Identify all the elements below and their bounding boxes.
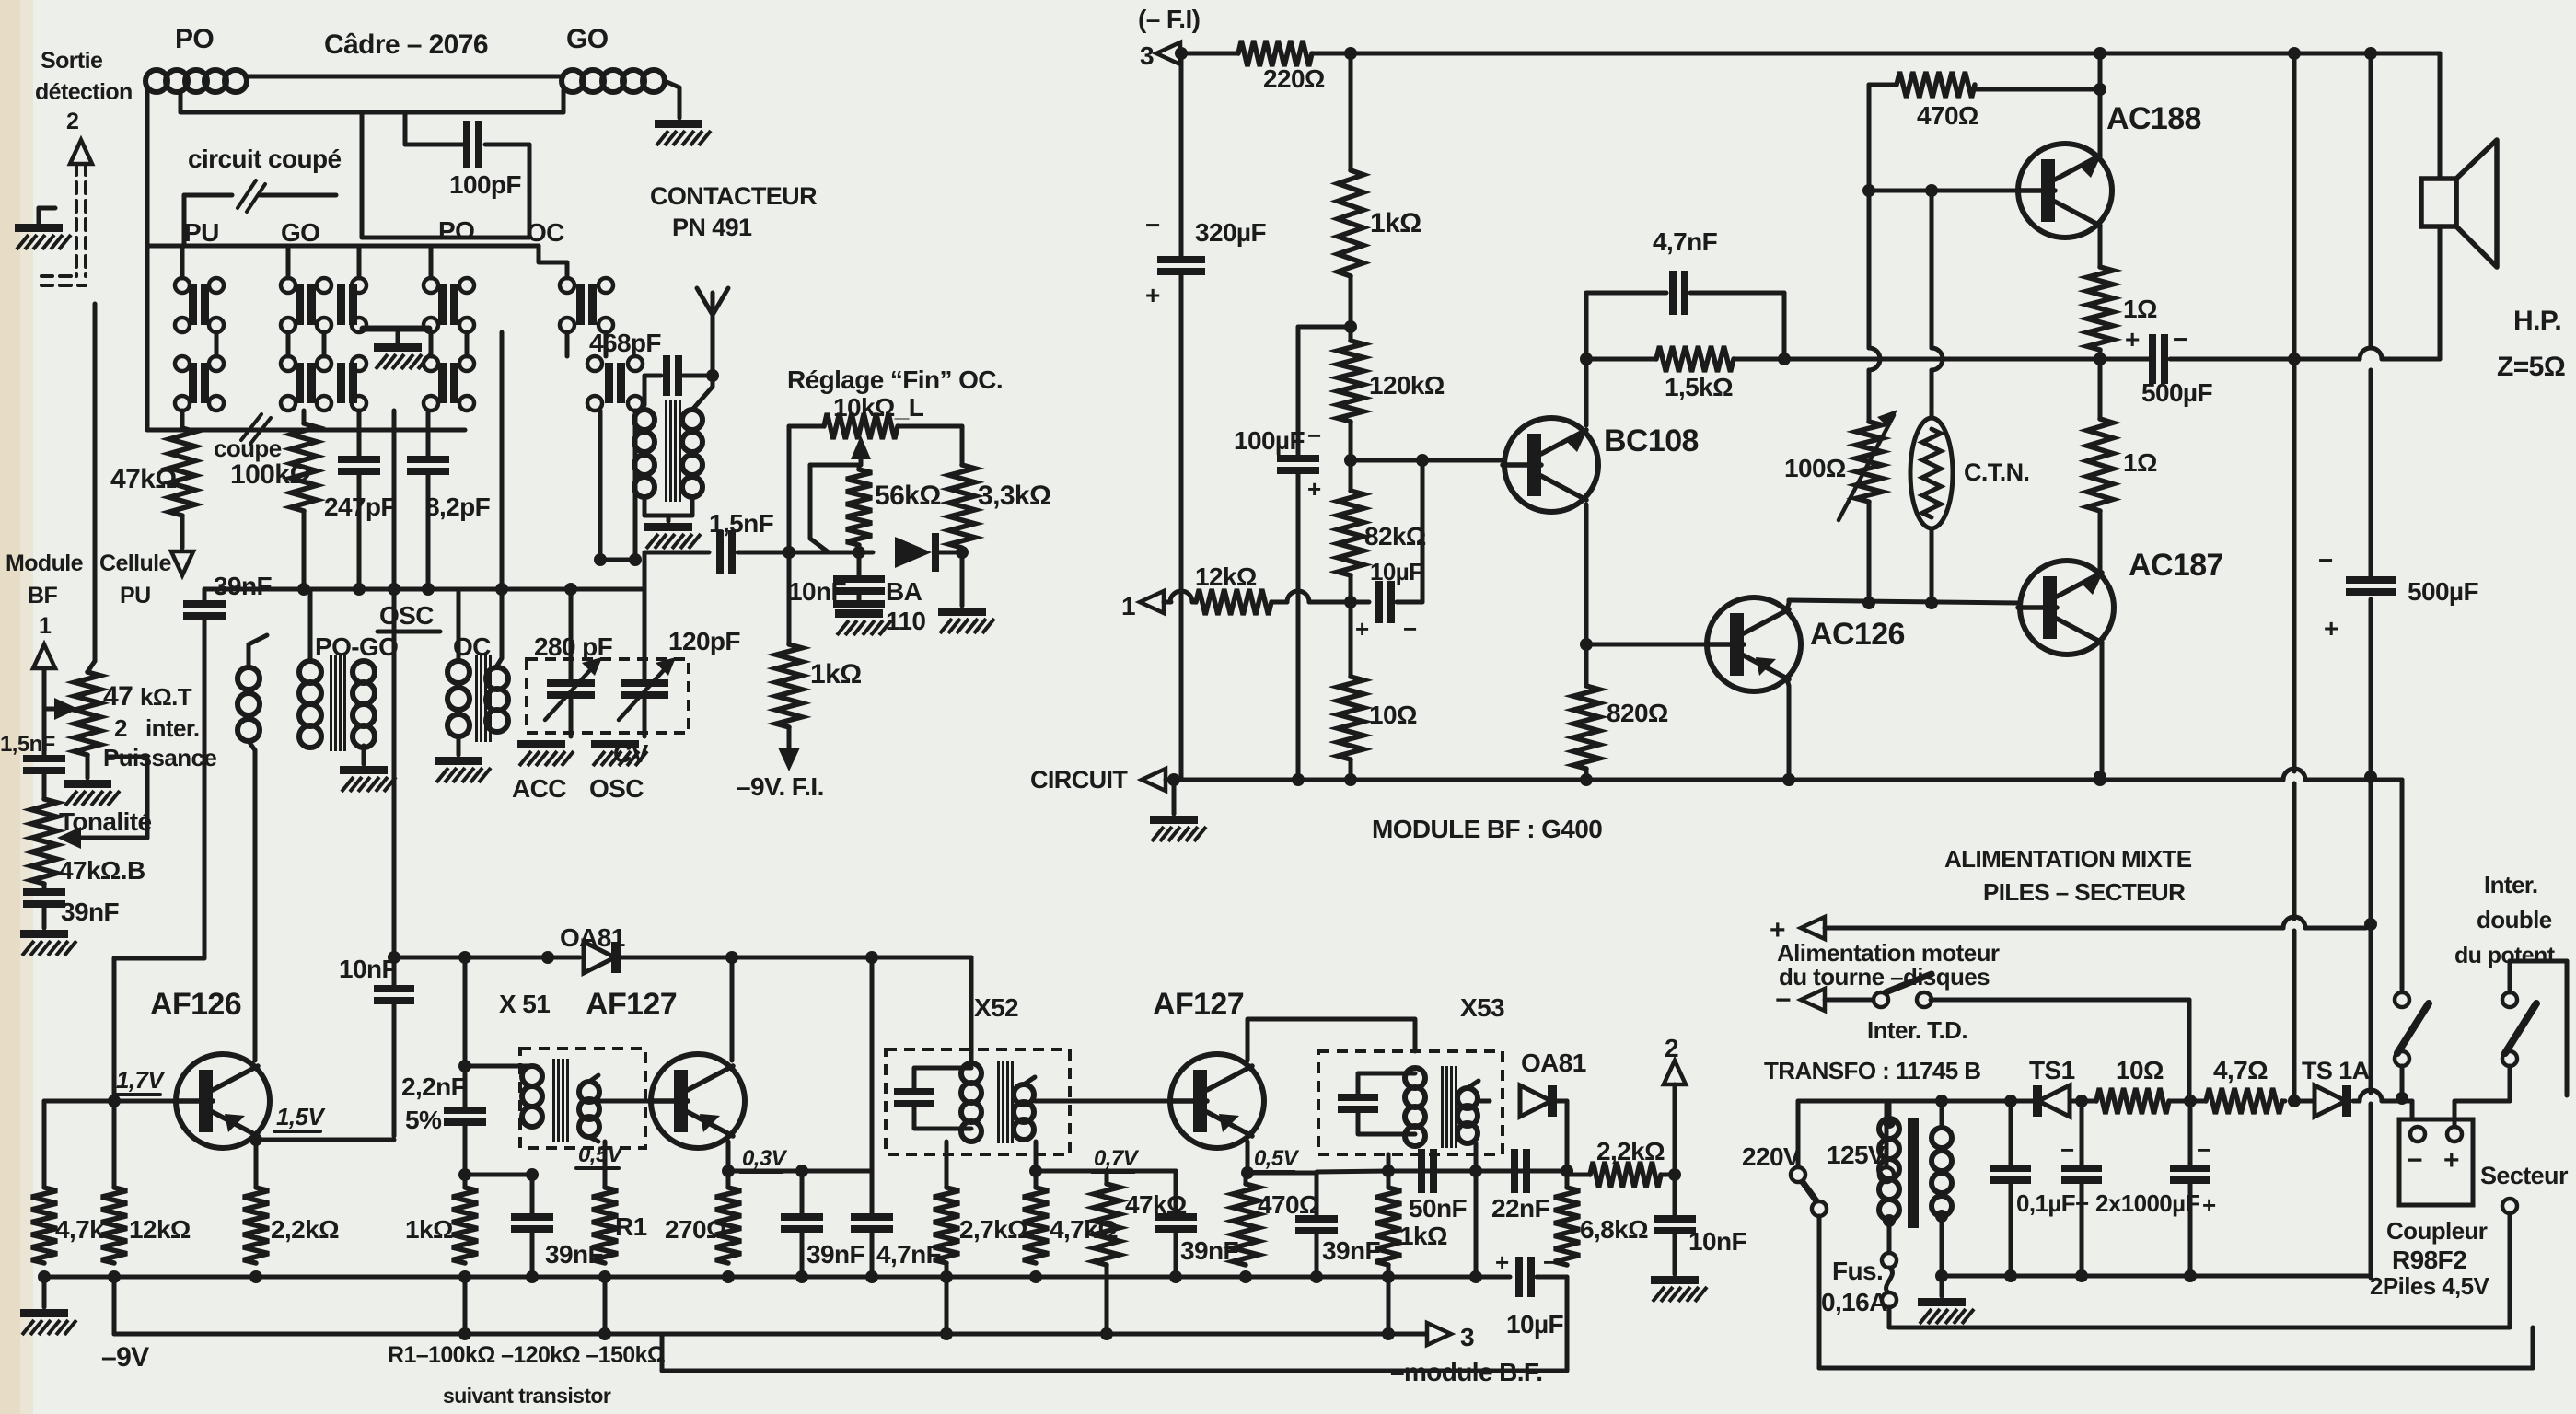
wire hp vertical: [2438, 53, 2443, 179]
transistor AC187 Q6: [2020, 561, 2114, 655]
wire ps ground rail: [1942, 1274, 2371, 1279]
svg-text:100Ω: 100Ω: [1784, 454, 1846, 482]
wire risers OC switch: [598, 411, 603, 560]
wire af126 emitter: [258, 1138, 394, 1142]
svg-text:−: −: [2173, 325, 2187, 353]
svg-text:820Ω: 820Ω: [1607, 699, 1668, 727]
wire af127-1 emitter: [726, 1142, 731, 1171]
wire 470 to emitter: [1973, 85, 1978, 89]
capacitor 10uF out: [1515, 1257, 1523, 1297]
capacitor 10nF out: [1673, 1175, 1677, 1215]
wire long vertical x2492: [2292, 53, 2297, 771]
wires contact risers: [180, 246, 185, 278]
wire circuit coupe with break: [184, 193, 232, 198]
capacitor 4,7nF bf: [1586, 291, 1666, 296]
ground GO: [655, 120, 702, 128]
dashed box X52: [886, 1049, 1070, 1154]
svg-text:47kΩ: 47kΩ: [110, 464, 177, 494]
coil L-PO cadre: [145, 70, 168, 92]
ground 10nF out: [1651, 1276, 1699, 1284]
wire det to diode: [789, 551, 873, 555]
capacitor 39nF stage1: [800, 1171, 805, 1213]
capacitor 39nF x51: [511, 1213, 553, 1221]
svg-text:280 pF: 280 pF: [534, 632, 613, 661]
diode BA110: [895, 537, 932, 568]
wire 2,2nF bottom: [458, 1168, 471, 1181]
wire diode to 3,3k: [939, 551, 962, 555]
svg-text:10µF: 10µF: [1370, 558, 1422, 585]
svg-text:MODULE BF : G400: MODULE BF : G400: [1372, 815, 1602, 843]
thermistor CTN: [1910, 418, 1953, 528]
svg-text:320µF: 320µF: [1195, 218, 1266, 247]
resistor 2,7kOhm: [934, 1188, 959, 1263]
wire x53 cap down: [1474, 1171, 1479, 1277]
ground sortie detection: [15, 224, 63, 232]
wire oa81 top: [394, 956, 580, 960]
svg-text:22nF: 22nF: [1491, 1194, 1549, 1223]
svg-text:R1–100kΩ –120kΩ –150kΩ: R1–100kΩ –120kΩ –150kΩ: [388, 1342, 666, 1368]
ground OSC cv: [591, 740, 639, 748]
wire cellule PU riser: [93, 304, 98, 661]
svg-text:5%: 5%: [405, 1106, 442, 1134]
svg-text:4,7Ω: 4,7Ω: [2213, 1056, 2268, 1084]
wire long vertical x2575: [2369, 53, 2373, 348]
svg-text:0,16A: 0,16A: [1821, 1288, 1887, 1316]
wire x52 top riser: [969, 957, 974, 1063]
wire af126 base: [44, 1099, 176, 1104]
wire secondary out: [1942, 1099, 2035, 1104]
wire af126 base riser: [203, 635, 207, 958]
svg-text:CIRCUIT: CIRCUIT: [1030, 766, 1128, 794]
wire af126 collector riser: [253, 750, 258, 1060]
svg-text:1,5kΩ: 1,5kΩ: [1665, 373, 1733, 401]
dashed box X51: [520, 1049, 645, 1148]
transistor AC188 Q7: [2018, 144, 2112, 238]
svg-text:1Ω: 1Ω: [2123, 448, 2157, 477]
capacitor 39nF (detection): [203, 589, 207, 600]
svg-text:Secteur: Secteur: [2480, 1162, 2569, 1189]
wire 0,7V bus: [1036, 1169, 1107, 1174]
wire - line down: [2187, 1000, 2192, 1098]
svg-text:470Ω: 470Ω: [1258, 1190, 1319, 1219]
svg-text:R1: R1: [615, 1212, 647, 1241]
resistor 220 Ohm: [1238, 41, 1312, 66]
svg-text:468pF: 468pF: [589, 329, 661, 357]
svg-text:AF126: AF126: [150, 987, 241, 1022]
pot wiper puissance: [44, 707, 55, 712]
wire 1k-120k: [1349, 276, 1353, 341]
svg-text:10nF: 10nF: [1688, 1227, 1746, 1256]
resistor 820 Ohm: [1584, 644, 1589, 686]
ground puissance: [86, 755, 90, 778]
svg-text:470Ω: 470Ω: [1917, 101, 1978, 130]
svg-text:BA: BA: [886, 577, 922, 606]
capacitor X52 tune: [894, 1088, 934, 1095]
wire battery plus: [2453, 1101, 2457, 1127]
svg-text:2,2nF: 2,2nF: [401, 1072, 467, 1101]
svg-text:270Ω: 270Ω: [665, 1215, 726, 1244]
svg-text:6,8kΩ: 6,8kΩ: [1580, 1215, 1648, 1244]
wire riser PO switch: [500, 332, 505, 589]
wire rail C: [662, 1277, 1567, 1371]
svg-text:BC108: BC108: [1604, 423, 1699, 458]
svg-text:0,3V: 0,3V: [742, 1146, 788, 1171]
capacitor X53 tune: [1338, 1094, 1378, 1101]
transformer OC antenna: [643, 376, 647, 405]
wire base node: [1349, 422, 1353, 460]
wire ac126 base: [1586, 643, 1706, 647]
wire out bus: [1317, 1171, 1388, 1172]
wire 4,7nF right: [1782, 293, 1787, 359]
diode TS1: [2038, 1085, 2070, 1117]
resistor 470 Ohm: [1244, 1173, 1248, 1184]
contactor section B closed bars: [189, 363, 197, 403]
capacitor 39nF stage3: [1246, 1171, 1317, 1176]
svg-text:PO: PO: [175, 24, 214, 54]
resistor 120kOhm: [1338, 341, 1363, 422]
wire 100uF branch: [1298, 325, 1351, 330]
wire PO left down to switch: [145, 90, 150, 285]
svg-text:120pF: 120pF: [668, 627, 740, 655]
svg-text:−: −: [1145, 211, 1160, 239]
wire oa81-2 out: [1556, 1099, 1567, 1104]
svg-text:–9V: –9V: [101, 1342, 149, 1373]
resistor R1: [603, 1142, 608, 1188]
wire ac187 collector: [2100, 643, 2105, 777]
svg-text:−: −: [2197, 1136, 2210, 1164]
svg-text:+: +: [2324, 614, 2338, 643]
svg-text:47kΩ.B: 47kΩ.B: [59, 856, 145, 885]
svg-text:47: 47: [103, 681, 133, 712]
switch 220V selector: [1791, 1167, 1805, 1182]
resistor 4,7kOhm stage2: [1034, 1142, 1039, 1188]
svg-text:X52: X52: [974, 993, 1018, 1022]
svg-text:2x1000µF: 2x1000µF: [2095, 1189, 2199, 1217]
wire top rail: [1312, 52, 2440, 56]
svg-text:120kΩ: 120kΩ: [1369, 371, 1445, 400]
resistor 47kOhm stage2: [1105, 1171, 1109, 1184]
svg-text:ALIMENTATION MIXTE: ALIMENTATION MIXTE: [1944, 845, 2192, 873]
svg-text:500µF: 500µF: [2141, 378, 2212, 407]
ground BA110 right: [938, 608, 986, 616]
svg-text:+: +: [2125, 325, 2140, 353]
wire x51 sec to af127: [598, 1099, 650, 1104]
capacitor 247pF: [338, 456, 380, 463]
svg-text:1kΩ: 1kΩ: [405, 1215, 453, 1244]
svg-text:8,2pF: 8,2pF: [425, 493, 491, 521]
contactor section B contacts: [175, 356, 190, 371]
svg-text:4,7nF: 4,7nF: [1653, 227, 1718, 256]
svg-text:Câdre – 2076: Câdre – 2076: [324, 29, 488, 60]
wire 39nF down: [203, 620, 207, 635]
ground tonalite: [20, 930, 68, 938]
svg-text:C.T.N.: C.T.N.: [1964, 458, 2029, 486]
resistor 3,3kOhm: [949, 465, 975, 548]
svg-text:OSC: OSC: [379, 601, 434, 630]
ground transformer OC: [667, 516, 671, 521]
svg-text:Module: Module: [6, 551, 84, 576]
svg-text:Fus.: Fus.: [1832, 1257, 1883, 1285]
wire dashed sortie detection: [75, 164, 78, 276]
svg-text:1,5V: 1,5V: [276, 1103, 326, 1130]
svg-text:50nF: 50nF: [1409, 1194, 1467, 1223]
svg-text:−: −: [1775, 985, 1791, 1015]
wire ac126 emitter: [1787, 679, 1789, 686]
svg-text:double: double: [2477, 906, 2552, 933]
wire power top: [1798, 1099, 1942, 1104]
wire x53 down: [1387, 1154, 1391, 1171]
wire main det y600: [644, 551, 709, 555]
ground ACC: [517, 740, 565, 748]
resistor 1kOhm bf: [1349, 53, 1353, 170]
wire bus y267: [147, 244, 539, 249]
ground circuit rail: [1172, 780, 1177, 814]
svg-text:TS 1A: TS 1A: [2302, 1057, 2370, 1084]
wire collector row dots: [1862, 597, 1875, 609]
wire 0,3V bus: [728, 1169, 872, 1174]
svg-text:10Ω: 10Ω: [1369, 701, 1417, 729]
wire fuse bottom rail: [1889, 1326, 2510, 1330]
wire oa81 to af127: [619, 956, 732, 960]
svg-text:H.P.: H.P.: [2513, 306, 2561, 336]
svg-text:PU: PU: [184, 218, 219, 247]
svg-text:OSC: OSC: [589, 774, 644, 803]
wire x51 down 39nF: [530, 1175, 535, 1213]
potentiometer 47kOhm.T puissance: [75, 672, 100, 755]
diode TS1A: [2294, 1099, 2316, 1104]
connector module BF arrow: [33, 644, 55, 668]
wire risers to RC row: [180, 411, 185, 428]
svg-text:220Ω: 220Ω: [1263, 64, 1325, 93]
wire osc coil riser: [249, 741, 255, 750]
transistor AF127 Q2: [651, 1054, 745, 1148]
resistor 1,5kOhm: [1656, 346, 1734, 372]
svg-text:125V: 125V: [1827, 1141, 1886, 1169]
wire PO-GO top: [247, 75, 563, 79]
resistor 2,2kOhm af126: [254, 1140, 259, 1188]
wire ac188 base: [1867, 85, 1872, 348]
resistor 82kOhm: [1349, 460, 1353, 491]
svg-text:4,7nF: 4,7nF: [876, 1240, 942, 1269]
svg-text:+: +: [1307, 475, 1321, 503]
variable capacitor 280pF CV: [569, 589, 574, 679]
svg-text:PO: PO: [438, 216, 474, 245]
svg-text:39nF: 39nF: [61, 898, 119, 926]
svg-text:+: +: [1145, 281, 1160, 309]
svg-text:OA81: OA81: [1521, 1049, 1586, 1077]
ground 10nF det: [835, 609, 883, 618]
svg-text:inter.: inter.: [145, 714, 200, 742]
svg-text:détection: détection: [35, 79, 133, 105]
svg-text:10µF: 10µF: [1506, 1310, 1563, 1339]
wire reglage right: [960, 426, 965, 465]
svg-text:100kΩ: 100kΩ: [230, 459, 311, 490]
resistor 12kOhm bf: [1196, 589, 1271, 615]
svg-text:3: 3: [1460, 1323, 1474, 1351]
contactor section A closed bars: [189, 284, 197, 325]
svg-text:100pF: 100pF: [449, 170, 521, 199]
svg-text:TS1: TS1: [2029, 1056, 2075, 1084]
svg-text:kΩ.T: kΩ.T: [140, 683, 192, 711]
coil osc feedback: [238, 667, 260, 690]
pot wiper tonalite: [57, 827, 81, 849]
svg-text:−: −: [2318, 546, 2333, 574]
transformer osc PO-GO: [308, 589, 313, 661]
svg-text:PN 491: PN 491: [672, 214, 752, 241]
wire osc bus y640: [204, 587, 644, 592]
transformer X52: [961, 1063, 981, 1084]
switch inter double left: [2400, 780, 2405, 992]
wire x52 bottom: [945, 1142, 949, 1188]
svg-text:Inter.: Inter.: [2484, 871, 2538, 898]
svg-text:1: 1: [39, 613, 52, 639]
wire bc108 collector: [1584, 504, 1589, 644]
transistor AC126 Q5: [1707, 597, 1801, 691]
capacitor 39nF tonalite: [42, 884, 47, 888]
capacitor 0,1uF: [2009, 1101, 2013, 1165]
wire riser x393: [360, 112, 365, 238]
switch Inter TD: [1874, 992, 1888, 1007]
capacitor 100uF: [1277, 455, 1319, 462]
svg-text:−: −: [2060, 1136, 2074, 1164]
svg-text:AC188: AC188: [2106, 101, 2201, 136]
resistor 100k: [291, 423, 317, 511]
resistor 470 Ohm bf: [1869, 83, 1897, 87]
resistor 1kOhm out: [1387, 1171, 1391, 1188]
capacitor 320uF: [1179, 53, 1184, 256]
transistor AF126 Q1: [176, 1054, 270, 1148]
svg-text:GO: GO: [281, 218, 319, 247]
resistor 1kOhm det: [783, 546, 795, 559]
svg-text:220V: 220V: [1742, 1142, 1801, 1171]
wire rail B -9V: [114, 1332, 1425, 1337]
wire 82k to 12k node: [1349, 575, 1353, 602]
svg-text:0,5V: 0,5V: [578, 1142, 624, 1167]
svg-text:circuit coupé: circuit coupé: [188, 145, 341, 173]
svg-text:Z=5Ω: Z=5Ω: [2497, 352, 2565, 382]
contact 125V: [1879, 1167, 1894, 1182]
dashed box CV: [527, 659, 689, 733]
svg-text:2: 2: [114, 714, 127, 742]
wire af127-2 collector top: [1247, 1019, 1415, 1060]
svg-text:–9V. F.I.: –9V. F.I.: [737, 772, 824, 801]
antenna: [697, 288, 713, 376]
capacitor 100pF: [463, 121, 470, 168]
wire 56k top box: [810, 463, 859, 468]
svg-text:Réglage “Fin” OC.: Réglage “Fin” OC.: [787, 365, 1003, 394]
resistor 12kOhm af126: [112, 1101, 117, 1188]
svg-text:0,5V: 0,5V: [1254, 1146, 1300, 1171]
resistor 47k (cellule PU): [169, 428, 195, 516]
wire coupe bus: [147, 428, 465, 433]
svg-text:+: +: [2443, 1145, 2459, 1176]
svg-text:82kΩ: 82kΩ: [1364, 522, 1426, 551]
svg-text:AF127: AF127: [586, 987, 677, 1022]
wire af127-1 collector: [730, 957, 735, 1060]
wire x52 sec out: [1040, 1099, 1166, 1104]
transformer primary winding: [1879, 1118, 1899, 1139]
fuse Fus 0,16A: [1887, 1221, 1892, 1254]
svg-text:GO: GO: [566, 24, 609, 54]
svg-text:39nF: 39nF: [806, 1240, 864, 1269]
svg-text:CONTACTEUR: CONTACTEUR: [650, 182, 817, 210]
arrow -9V FI: [787, 727, 792, 748]
resistor 1kOhm x51: [463, 1175, 468, 1188]
svg-text:1Ω: 1Ω: [2123, 295, 2157, 323]
transformer X51: [522, 1066, 542, 1086]
svg-text:ACC: ACC: [512, 774, 566, 803]
potentiometer 10kOhm: [789, 424, 824, 429]
svg-text:AF127: AF127: [1153, 987, 1244, 1022]
svg-text:+: +: [1495, 1248, 1509, 1276]
switch inter double right: [2502, 992, 2517, 1007]
svg-text:1: 1: [1121, 592, 1135, 620]
resistor 56kOhm: [857, 465, 862, 469]
svg-text:(– F.I): (– F.I): [1138, 5, 1200, 33]
svg-text:suivant transistor: suivant transistor: [443, 1384, 611, 1408]
speaker HP: [2421, 179, 2456, 226]
wire y258 to GO switch: [362, 236, 529, 240]
svg-text:2,2kΩ: 2,2kΩ: [271, 1215, 339, 1244]
svg-text:PU: PU: [120, 583, 151, 608]
wire 1,5k row: [1586, 357, 1656, 362]
svg-text:+: +: [1355, 615, 1369, 643]
svg-text:Inter. T.D.: Inter. T.D.: [1867, 1016, 1967, 1044]
svg-text:2: 2: [66, 109, 78, 134]
svg-text:TRANSFO : 11745 B: TRANSFO : 11745 B: [1764, 1057, 1980, 1084]
svg-text:du potent.: du potent.: [2454, 943, 2560, 968]
svg-text:2: 2: [1665, 1034, 1678, 1062]
svg-text:OC: OC: [527, 218, 564, 247]
ground contactor: [374, 343, 422, 352]
wire 500uF to speaker: [2288, 353, 2301, 365]
resistor 4,7k af126: [42, 1101, 47, 1188]
capacitor 10uF bf: [1351, 600, 1369, 605]
capacitor 1000uF first: [2080, 1101, 2084, 1165]
svg-text:4,7k: 4,7k: [55, 1215, 104, 1244]
svg-text:247pF: 247pF: [324, 493, 396, 521]
capacitor 22nF: [1511, 1149, 1518, 1193]
svg-text:3: 3: [1140, 41, 1154, 70]
svg-text:CV: CV: [613, 739, 649, 768]
svg-text:−: −: [2407, 1145, 2422, 1176]
svg-text:2,7kΩ: 2,7kΩ: [959, 1215, 1027, 1244]
dashed box X53: [1318, 1051, 1503, 1154]
svg-text:du tourne –disques: du tourne –disques: [1779, 963, 1990, 991]
svg-text:1kΩ: 1kΩ: [810, 659, 862, 690]
wire 12k to node: [1271, 600, 1287, 605]
svg-text:−: −: [1543, 1248, 1557, 1276]
svg-text:1,5nF: 1,5nF: [0, 732, 55, 757]
svg-text:Cellule: Cellule: [99, 551, 171, 576]
wire 3,3k down: [960, 552, 965, 606]
transformer secondary winding: [1940, 1101, 1944, 1128]
svg-text:39nF: 39nF: [1322, 1236, 1380, 1265]
svg-text:110: 110: [886, 607, 925, 635]
wire PO tap down: [179, 92, 183, 112]
contact Secteur: [2502, 1199, 2517, 1213]
transformer osc OC: [457, 589, 461, 661]
svg-text:2Piles 4,5V: 2Piles 4,5V: [2370, 1272, 2490, 1300]
svg-text:12kΩ: 12kΩ: [1195, 562, 1257, 591]
svg-text:+: +: [2202, 1191, 2216, 1219]
resistor 270 Ohm: [726, 1171, 731, 1188]
resistor 6,8kOhm: [1565, 1171, 1570, 1188]
wire 12k hop 320uF: [1170, 591, 1192, 602]
svg-text:0,7V: 0,7V: [1094, 1146, 1140, 1171]
svg-text:Coupleur: Coupleur: [2386, 1217, 2488, 1245]
svg-text:BF: BF: [28, 583, 57, 608]
